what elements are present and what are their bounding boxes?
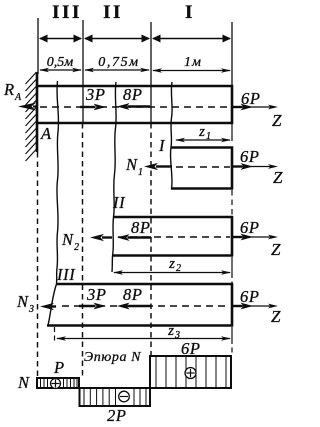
svg-text:6P: 6P <box>240 287 260 306</box>
force 8P label (sub-bar II) <box>131 218 151 237</box>
svg-text:1м: 1м <box>184 55 202 70</box>
svg-text:II: II <box>112 193 126 212</box>
epure block P plus sign <box>51 379 61 389</box>
svg-text:I: I <box>158 136 166 155</box>
svg-text:Z: Z <box>273 168 283 187</box>
cut label II <box>112 193 126 212</box>
svg-text:3P: 3P <box>85 85 106 104</box>
svg-text:Z: Z <box>272 111 282 130</box>
svg-text:III: III <box>52 2 82 23</box>
wavy cut line I <box>170 82 172 189</box>
svg-text:I: I <box>185 2 195 23</box>
force 6P arrow (sub-bar II) <box>233 234 253 241</box>
sub-bar I outline <box>171 147 233 190</box>
force 6P arrow (sub-bar I) <box>233 163 253 170</box>
epure block 6P (positive) <box>150 356 231 388</box>
epure N axis label <box>17 373 30 392</box>
force N3 arrow <box>40 303 56 310</box>
force 8P arrow (sub-bar III) <box>117 303 151 310</box>
force N2 arrow <box>90 234 112 241</box>
wall support face <box>36 72 39 152</box>
section label II <box>103 2 123 23</box>
dashed section line x=151 <box>150 123 152 356</box>
svg-text:3: 3 <box>28 304 34 315</box>
dimension 1м <box>152 55 231 73</box>
svg-text:z: z <box>167 323 174 339</box>
force 6P label (sub-bar I) <box>240 147 260 166</box>
sub-bar III outline <box>47 283 233 327</box>
force N3 label <box>16 292 34 315</box>
Z axis (sub-bar I) <box>233 164 283 187</box>
wavy cut line II <box>112 82 116 272</box>
section arrow III (row 1) <box>39 35 82 43</box>
svg-text:A: A <box>14 92 22 103</box>
force 6P arrow (sub-bar III) <box>233 303 253 310</box>
force N2 label <box>61 230 79 253</box>
svg-text:z: z <box>198 124 205 140</box>
svg-text:8P: 8P <box>123 85 143 104</box>
svg-text:N: N <box>16 292 29 311</box>
Z axis (sub-bar III) <box>233 304 281 326</box>
extension line x=232 segments <box>231 124 233 356</box>
svg-text:R: R <box>3 80 15 99</box>
extension line x=232 <box>231 22 233 86</box>
force N1 arrow <box>144 163 172 170</box>
extension line x=38 <box>37 18 39 74</box>
svg-text:6P: 6P <box>240 218 260 237</box>
svg-text:N: N <box>61 230 74 249</box>
epure title <box>84 350 141 365</box>
epure zero axis <box>37 387 232 389</box>
dimension 0,75м <box>84 55 150 72</box>
reaction arrow R_A <box>18 103 37 111</box>
force 6P label (main bar) <box>241 89 261 108</box>
epure block 2P (negative) <box>80 388 151 406</box>
wavy cut line III <box>48 81 59 326</box>
force 6P label (sub-bar II) <box>240 218 260 237</box>
z3 left extension line <box>54 327 56 344</box>
svg-text:8P: 8P <box>131 218 151 237</box>
svg-text:8P: 8P <box>123 285 143 304</box>
force 3P arrow (sub-bar III) <box>79 303 106 310</box>
force 8P arrow (sub-bar II) <box>117 234 151 241</box>
sub-bar III centerline <box>62 305 230 307</box>
force 3P label (sub-bar III) <box>86 285 107 304</box>
sub-bar II outline <box>112 216 233 257</box>
svg-text:3P: 3P <box>86 285 107 304</box>
reaction label R_A <box>3 80 22 103</box>
force 8P label (sub-bar III) <box>123 285 143 304</box>
svg-text:2: 2 <box>74 242 79 253</box>
force 3P label (main bar) <box>85 85 106 104</box>
section arrow I (row 1) <box>152 35 231 43</box>
node A label <box>40 124 52 143</box>
svg-text:Эпюра N: Эпюра N <box>84 350 141 365</box>
section label III <box>52 2 82 23</box>
extension line x=83 <box>82 20 84 123</box>
wall hatching <box>26 72 37 161</box>
force 8P arrow (main bar) <box>117 103 150 110</box>
epure block 2P minus sign <box>119 391 130 402</box>
force 3P arrow (main bar) <box>80 104 106 111</box>
svg-text:III: III <box>56 265 76 284</box>
cut label I <box>158 136 166 155</box>
force 8P label (main bar) <box>123 85 143 104</box>
svg-text:Z: Z <box>271 307 281 326</box>
dashed section line x=82.5 <box>82 123 84 377</box>
dimension z1 <box>175 124 231 142</box>
dimension z3 <box>56 323 231 341</box>
cut label III <box>56 265 76 284</box>
svg-text:II: II <box>103 2 123 23</box>
dimension z2 <box>113 256 231 275</box>
svg-text:N: N <box>17 373 30 392</box>
svg-text:P: P <box>53 358 65 377</box>
svg-text:1: 1 <box>138 167 143 178</box>
main bar outline <box>36 85 233 124</box>
epure 2P label <box>107 406 127 425</box>
svg-text:Z: Z <box>271 240 281 259</box>
main bar centerline <box>40 106 230 108</box>
force 6P arrow (main bar) <box>233 104 253 111</box>
svg-text:z: z <box>168 256 175 272</box>
section label I <box>185 2 195 23</box>
epure block 6P plus sign <box>185 368 196 379</box>
dashed axis extension x=37.5 <box>37 152 39 377</box>
epure 6P value label <box>181 339 201 358</box>
epure P label <box>53 358 65 377</box>
svg-text:N: N <box>125 155 138 174</box>
Z axis (sub-bar II) <box>233 235 281 259</box>
force N1 label <box>125 155 143 178</box>
extension line x=151 <box>150 22 152 123</box>
svg-text:0,75м: 0,75м <box>98 55 139 70</box>
sub-bar II centerline <box>118 236 230 238</box>
svg-text:3: 3 <box>174 330 180 341</box>
Z axis (main bar) <box>233 105 282 130</box>
svg-text:0,5м: 0,5м <box>47 55 74 70</box>
sub-bar I centerline <box>176 166 230 168</box>
epure block P (positive) <box>37 378 79 388</box>
section arrow II (row 1) <box>84 35 150 43</box>
svg-text:A: A <box>40 124 52 143</box>
svg-text:6P: 6P <box>240 147 260 166</box>
svg-text:2P: 2P <box>107 406 127 425</box>
force 6P label (sub-bar III) <box>240 287 260 306</box>
dimension 0,5м <box>39 55 82 72</box>
